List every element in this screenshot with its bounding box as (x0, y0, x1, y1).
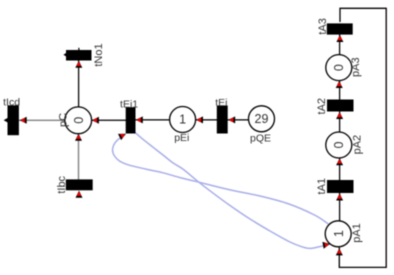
arc tEi1 to pA1 (blue curve) (135, 132, 330, 248)
arc pA1 to tEi1 (blue curve) (113, 134, 329, 224)
label tNo1 (rotated) (93, 43, 105, 66)
svg-text:tEi1: tEi1 (120, 98, 138, 110)
arrowhead into tIcd (from pC) (20, 117, 27, 124)
wire pC to tIcd (gray) (13, 119, 78, 121)
tick on tNo1 left (63, 53, 66, 57)
label pC (rotated) (57, 113, 69, 127)
arrowhead into pA3 bottom (from tA2) (336, 81, 343, 88)
transition tNo1 (66, 50, 92, 61)
label pQE (250, 132, 271, 144)
label pA2 (rotated) (352, 135, 364, 155)
token count 1 in pA1 (rotated) (332, 230, 346, 237)
arrowhead into pEi right (from tEi) (196, 116, 203, 123)
label tEi (215, 97, 227, 109)
arrowhead below tIbc (76, 191, 83, 198)
arrowhead into pC bottom (from tIbc) (75, 134, 82, 141)
arrowhead into pC right (from tEi1) (92, 117, 99, 124)
svg-text:pA1: pA1 (351, 223, 363, 243)
wire tEi to pEi (183, 119, 223, 121)
token count 1 in pEi (179, 113, 186, 127)
label pA3 (rotated) (350, 57, 362, 77)
place pA3 (326, 55, 352, 81)
label pEi (174, 132, 189, 144)
transition tEi (217, 106, 228, 134)
label tIcd (3, 96, 20, 108)
wire loop tA3 to pA1 (339, 8, 386, 267)
arrowhead into tA3 bottom (from pA3) (336, 35, 343, 42)
transition tA1 (327, 180, 354, 193)
label tIbc (rotated) (56, 175, 68, 193)
svg-text:0: 0 (332, 64, 346, 71)
svg-text:tEi: tEi (215, 97, 227, 109)
label tA2 (rotated) (316, 98, 328, 115)
svg-text:0: 0 (332, 141, 346, 148)
arrowhead into pA2 bottom (from tA1) (336, 158, 343, 165)
transition tIcd (8, 105, 19, 135)
token count 29 in pQE (255, 112, 269, 126)
svg-text:pA3: pA3 (350, 57, 362, 77)
svg-text:0: 0 (72, 117, 86, 124)
tick on tIcd left (4, 118, 8, 123)
label pA1 (rotated) (351, 223, 363, 243)
arrowhead into pA1 lower-left (from tEi1, blue arc) (322, 240, 330, 248)
token count 0 in pC (rotated) (72, 117, 86, 124)
place pA2 (326, 132, 352, 158)
svg-text:tA1: tA1 (316, 178, 328, 195)
label tA1 (rotated) (316, 178, 328, 195)
svg-text:pA2: pA2 (352, 135, 364, 155)
tick on tNo1 top (78, 48, 80, 51)
place pEi (170, 107, 196, 133)
svg-text:tA2: tA2 (316, 98, 328, 115)
wire tIbc to pC (gray) (78, 120, 80, 185)
svg-text:tA3: tA3 (317, 18, 329, 35)
svg-text:tIcd: tIcd (3, 96, 20, 108)
place pC (65, 107, 92, 134)
transition tEi1 (126, 107, 136, 133)
wire pEi to tEi1 (131, 119, 183, 121)
arrowhead into tA2 bottom (from pA2) (336, 112, 343, 119)
arrowhead into tEi right (from pQE) (228, 116, 235, 123)
svg-text:29: 29 (255, 112, 269, 126)
place pQE (249, 106, 275, 132)
svg-text:tIbc: tIbc (56, 175, 68, 193)
wire right column vertical (339, 28, 341, 234)
wire tEi1 to pC (78, 119, 131, 121)
label tEi1 (120, 98, 138, 110)
place pA1 (325, 221, 351, 247)
svg-text:tNo1: tNo1 (93, 43, 105, 66)
arrowhead into pA1 bottom (from tA3 loop) (336, 248, 343, 255)
arrowhead into tA1 bottom (from pA1) (336, 193, 343, 200)
wire pC to tNo1 (78, 55, 80, 120)
arrowhead into tEi1 right (from pEi) (136, 116, 143, 123)
token count 0 in pA3 (rotated) (332, 64, 346, 71)
svg-text:pEi: pEi (174, 132, 189, 144)
transition tA2 (327, 100, 354, 112)
wire pQE to tEi (222, 119, 261, 121)
svg-text:pC: pC (57, 113, 69, 127)
label tA3 (rotated) (317, 18, 329, 35)
transition tA3 (327, 23, 353, 34)
arrowhead into tNo1 (from pC) (75, 61, 82, 68)
token count 0 in pA2 (rotated) (332, 141, 346, 148)
arrowhead into tEi1 bottom-left (from pA1, blue arc) (118, 131, 128, 140)
svg-text:1: 1 (179, 113, 186, 127)
svg-text:pQE: pQE (250, 132, 271, 144)
svg-text:1: 1 (332, 230, 346, 237)
transition tIbc (66, 179, 93, 190)
